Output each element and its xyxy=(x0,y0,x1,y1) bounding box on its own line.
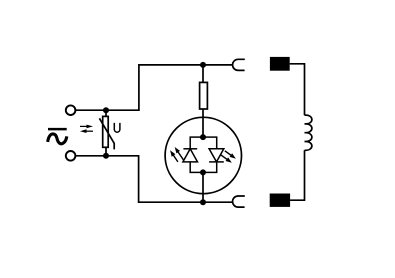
junction varistor bottom xyxy=(103,153,109,159)
junction loop top xyxy=(200,134,206,140)
wire top-left rail from terminal up to top rail xyxy=(76,65,204,110)
varistor label U xyxy=(114,123,120,132)
terminal bottom xyxy=(66,151,76,161)
wire lamp to bottom rail xyxy=(202,172,204,202)
junction top rail xyxy=(200,62,206,68)
wire bottom-left rail from terminal down to bottom rail xyxy=(76,156,204,202)
pin contact top xyxy=(270,57,290,71)
terminal top xyxy=(66,105,76,115)
LED left light arrows xyxy=(170,147,183,162)
varistor xyxy=(99,110,114,156)
wire plug top xyxy=(290,64,305,115)
junction loop bottom xyxy=(200,169,206,175)
junction varistor top xyxy=(103,107,109,113)
socket contact top xyxy=(233,59,245,70)
LED bridge loop xyxy=(190,137,217,172)
pin contact bottom xyxy=(270,194,290,207)
socket contact bottom xyxy=(233,196,245,207)
wire bottom rail to socket xyxy=(203,201,233,203)
inductor coil xyxy=(305,115,312,150)
AC supply symbol xyxy=(48,129,67,144)
wire top rail to socket xyxy=(203,64,233,66)
wire plug bottom xyxy=(290,150,304,200)
LED left (pointing up) xyxy=(183,149,198,162)
indicator lamp circle xyxy=(165,117,241,193)
influence arrows xyxy=(80,125,93,133)
junction bottom rail xyxy=(200,199,206,205)
LED right (pointing down) xyxy=(209,149,224,162)
LED right light arrows xyxy=(221,151,236,163)
resistor xyxy=(200,65,208,137)
